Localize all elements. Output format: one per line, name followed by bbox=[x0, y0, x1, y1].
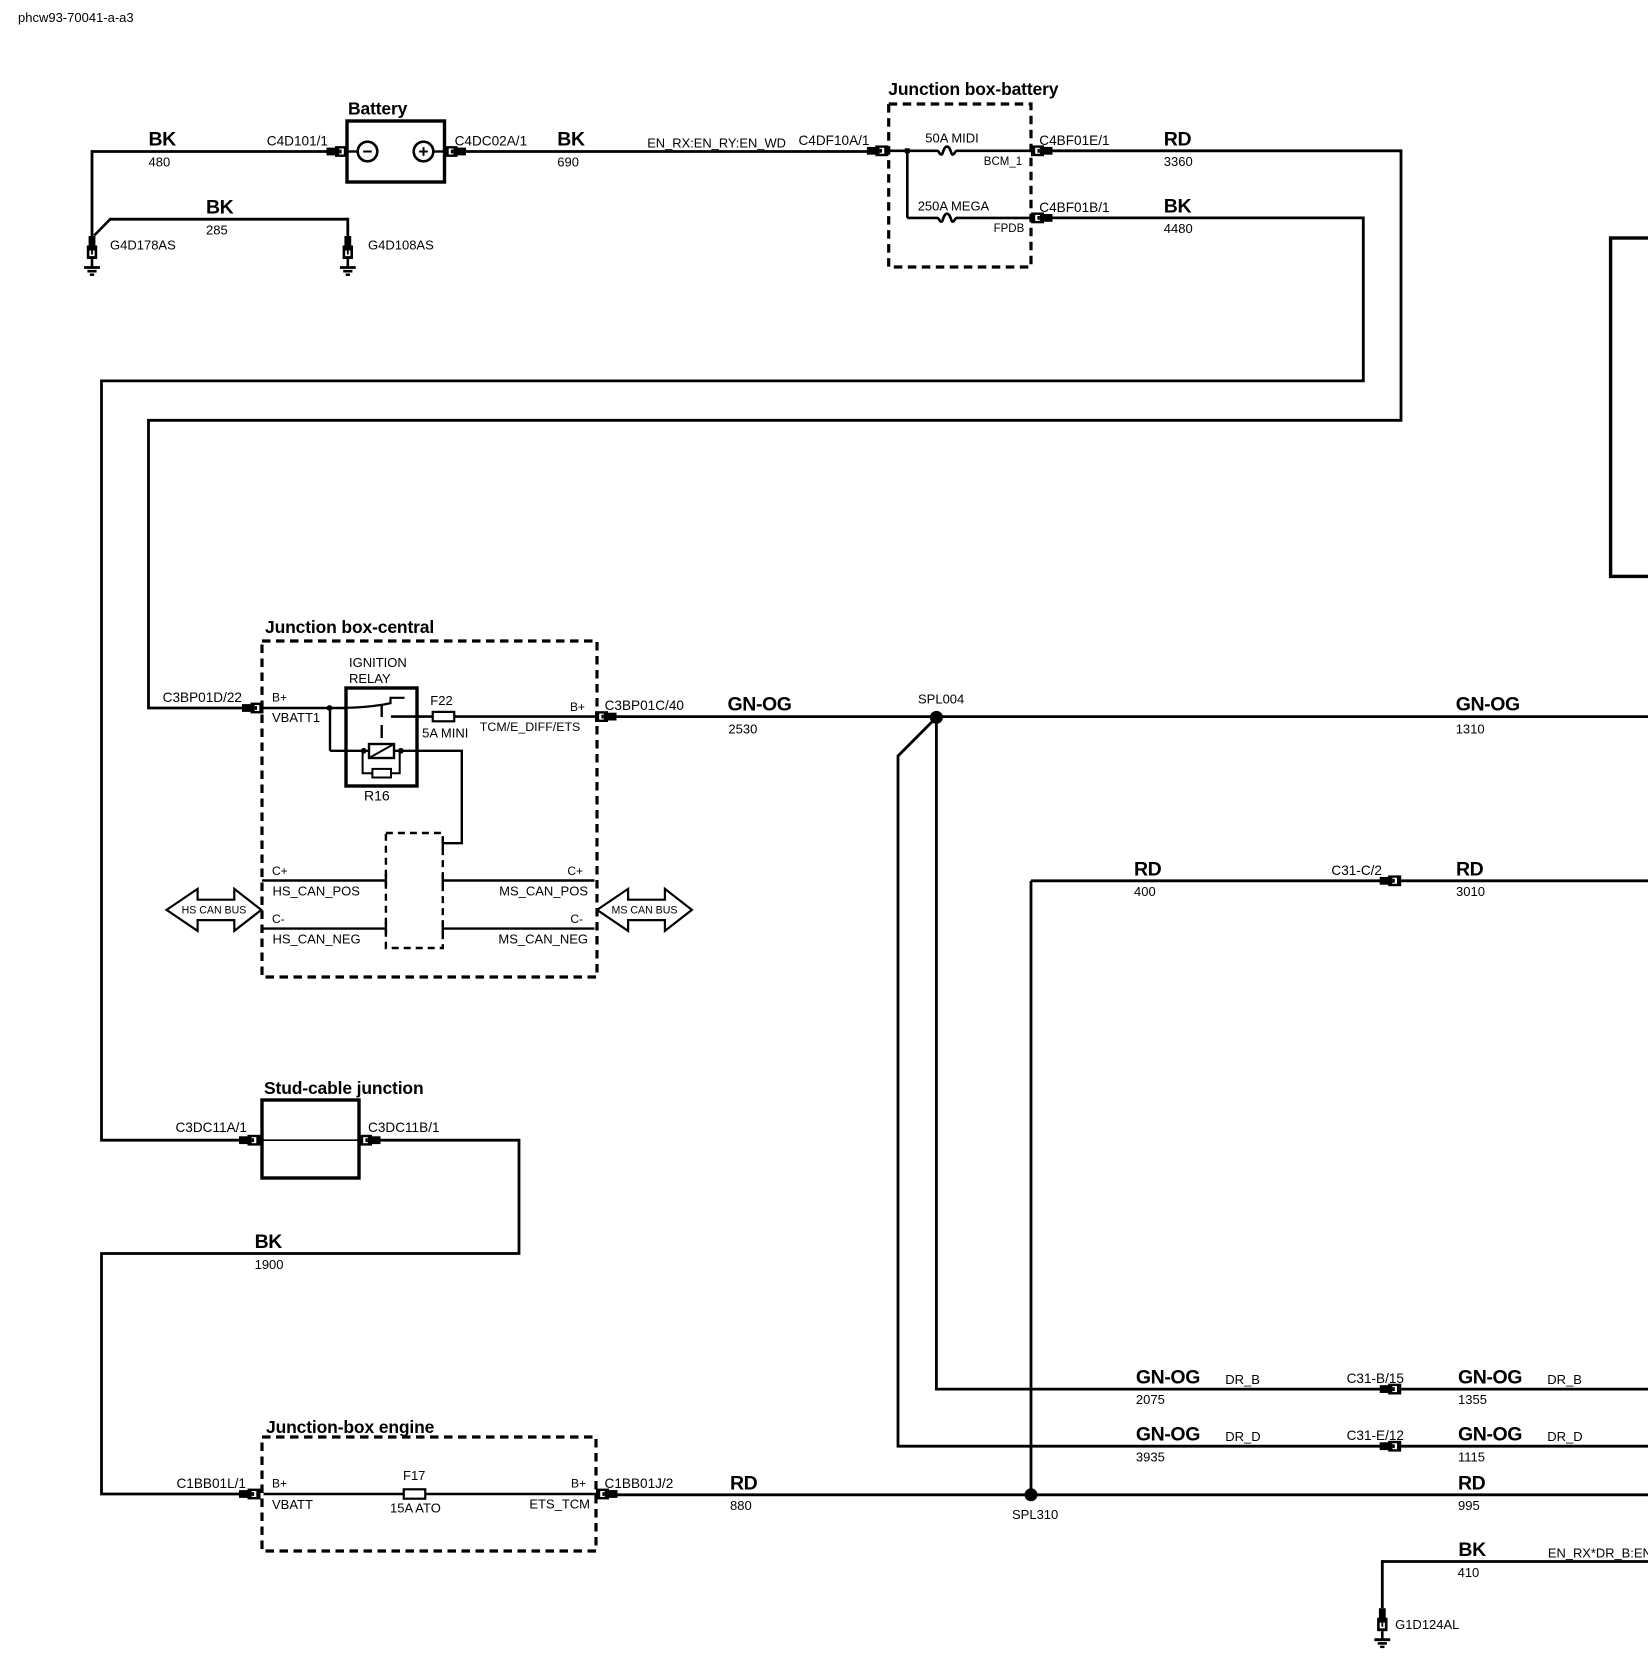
tick at CAN module box corner bbox=[442, 837, 444, 849]
junction node in junction box-battery bbox=[905, 148, 910, 153]
svg-text:EN_RX*DR_B:EN_R: EN_RX*DR_B:EN_R bbox=[1548, 1546, 1648, 1561]
svg-text:50A MIDI: 50A MIDI bbox=[925, 131, 978, 146]
HS CAN BUS arrow bbox=[167, 889, 262, 931]
wire BK 410 bbox=[1382, 1560, 1648, 1563]
svg-text:410: 410 bbox=[1458, 1565, 1480, 1580]
svg-text:FPDB: FPDB bbox=[994, 223, 1025, 235]
svg-text:HS_CAN_NEG: HS_CAN_NEG bbox=[273, 932, 361, 947]
svg-text:995: 995 bbox=[1458, 1498, 1480, 1513]
svg-text:IGNITION: IGNITION bbox=[349, 655, 407, 670]
stud-cable junction box bbox=[262, 1100, 359, 1178]
splice SPL004 bbox=[930, 711, 943, 724]
svg-text:GN-OG: GN-OG bbox=[728, 694, 792, 716]
wire GN-OG 1355 bbox=[1401, 1388, 1648, 1391]
splice SPL310 bbox=[1025, 1488, 1038, 1501]
svg-text:F22: F22 bbox=[430, 693, 452, 708]
wire through stud-cable junction bbox=[262, 1139, 359, 1141]
svg-text:Stud-cable junction: Stud-cable junction bbox=[264, 1078, 424, 1098]
partial component box (cut at sheet edge) bbox=[1611, 238, 1648, 576]
svg-text:RD: RD bbox=[1458, 1472, 1486, 1494]
svg-text:1355: 1355 bbox=[1458, 1392, 1487, 1407]
junction box-battery dashed outline bbox=[889, 104, 1031, 267]
svg-text:MS CAN BUS: MS CAN BUS bbox=[612, 905, 678, 917]
svg-text:MS_CAN_POS: MS_CAN_POS bbox=[499, 884, 588, 899]
svg-text:B+: B+ bbox=[570, 700, 585, 714]
connector C1BB01J/2 bbox=[596, 1489, 618, 1500]
CAN gateway dashed sub-box bbox=[386, 833, 443, 948]
MS CAN BUS arrow bbox=[597, 889, 692, 931]
svg-text:B+: B+ bbox=[272, 1477, 287, 1491]
wire BK 285 diagonal into ground G4D178AS bbox=[94, 219, 110, 235]
svg-text:BK: BK bbox=[1164, 195, 1192, 217]
connector C3DC11B/1 bbox=[359, 1135, 381, 1146]
relay R16 box bbox=[346, 688, 417, 786]
junction box-central dashed outline bbox=[262, 641, 597, 977]
svg-text:1310: 1310 bbox=[1456, 721, 1485, 736]
svg-text:3010: 3010 bbox=[1456, 884, 1485, 899]
wire VBATT1 into ignition relay bbox=[264, 707, 347, 710]
battery positive terminal bbox=[414, 142, 434, 162]
tick MS_CAN_POS at gateway bbox=[442, 875, 444, 887]
wire RD 400 drop to SPL310 bbox=[1030, 881, 1033, 1495]
wire BK 480 (battery negative feed) bbox=[92, 150, 328, 153]
wire BK 285 bbox=[110, 218, 348, 221]
svg-text:SPL004: SPL004 bbox=[918, 692, 964, 707]
svg-text:DR_B: DR_B bbox=[1225, 1372, 1260, 1387]
relay coil bbox=[369, 744, 394, 758]
wire 50A MIDI row out bbox=[957, 150, 1031, 153]
junction-box engine dashed outline bbox=[262, 1437, 596, 1551]
connector C3BP01D/22 bbox=[242, 703, 264, 714]
wire RD 400 bbox=[1031, 879, 1380, 882]
tick MS_CAN_NEG at gateway bbox=[442, 923, 444, 935]
wire BK 4480 to stud-cable junction bbox=[102, 218, 1364, 1140]
svg-text:ETS_TCM: ETS_TCM bbox=[529, 1497, 590, 1512]
wire relay coil left lead bbox=[330, 750, 369, 752]
wire RD 3010 bbox=[1401, 879, 1648, 882]
svg-text:15A ATO: 15A ATO bbox=[390, 1500, 441, 1515]
connector C3BP01C/40 bbox=[595, 711, 617, 722]
wire 250A MEGA row bbox=[907, 217, 937, 220]
svg-text:GN-OG: GN-OG bbox=[1458, 1366, 1522, 1388]
wire 250A MEGA row out bbox=[957, 217, 1031, 220]
svg-text:G4D108AS: G4D108AS bbox=[368, 238, 434, 253]
connector C3DC11A/1 bbox=[239, 1135, 261, 1146]
relay coil right node bbox=[398, 748, 404, 754]
svg-text:VBATT1: VBATT1 bbox=[272, 710, 320, 725]
ground G4D108AS bbox=[340, 236, 356, 275]
tick HS_CAN_NEG at gateway bbox=[385, 923, 387, 935]
wire from SPL004 to DR_D row (diagonal) bbox=[898, 717, 1380, 1446]
connector C31-B/15 bbox=[1380, 1384, 1402, 1395]
svg-text:MS_CAN_NEG: MS_CAN_NEG bbox=[498, 932, 588, 947]
battery positive stub bbox=[433, 150, 444, 152]
svg-text:G4D178AS: G4D178AS bbox=[110, 238, 176, 253]
svg-text:C3DC11A/1: C3DC11A/1 bbox=[175, 1120, 247, 1135]
svg-text:SPL310: SPL310 bbox=[1012, 1507, 1058, 1522]
wire HS_CAN_POS bbox=[262, 879, 386, 881]
svg-text:2530: 2530 bbox=[728, 721, 757, 736]
svg-text:TCM/E_DIFF/ETS: TCM/E_DIFF/ETS bbox=[480, 720, 581, 734]
svg-text:480: 480 bbox=[149, 154, 171, 169]
relay suppression resistor right lead bbox=[391, 751, 400, 773]
svg-text:GN-OG: GN-OG bbox=[1458, 1423, 1522, 1445]
svg-text:285: 285 bbox=[206, 223, 228, 238]
wire 50A MIDI row bbox=[889, 150, 937, 153]
relay coil left node bbox=[361, 748, 367, 754]
svg-text:Battery: Battery bbox=[348, 99, 408, 119]
relay armature dashed link bbox=[381, 704, 383, 744]
relay coil diagonal bbox=[369, 744, 394, 758]
svg-text:C+: C+ bbox=[567, 864, 583, 878]
svg-text:GN-OG: GN-OG bbox=[1136, 1423, 1200, 1445]
svg-text:RD: RD bbox=[1164, 128, 1192, 150]
ground G1D124AL bbox=[1374, 1608, 1390, 1647]
svg-text:C1BB01J/2: C1BB01J/2 bbox=[605, 1476, 674, 1491]
svg-text:C4DF10A/1: C4DF10A/1 bbox=[798, 133, 869, 148]
svg-text:BK: BK bbox=[149, 129, 177, 151]
wire HS_CAN_NEG bbox=[262, 927, 386, 929]
connector C4D101/1 bbox=[327, 146, 349, 157]
svg-text:GN-OG: GN-OG bbox=[1456, 694, 1520, 716]
wire RD 880 / RD 995 bbox=[618, 1493, 1648, 1496]
fuse 50A MIDI bbox=[937, 147, 957, 155]
svg-text:Junction-box engine: Junction-box engine bbox=[266, 1417, 435, 1437]
connector C4DC02A/1 bbox=[445, 146, 467, 157]
wire BK 410 drop to ground bbox=[1381, 1560, 1384, 1608]
connector C31-E/12 bbox=[1380, 1441, 1402, 1452]
svg-text:B+: B+ bbox=[272, 691, 287, 705]
battery box bbox=[347, 121, 445, 182]
svg-text:DR_D: DR_D bbox=[1547, 1429, 1582, 1444]
wire RD 3360 to junction box-central bbox=[149, 151, 1402, 708]
svg-text:1115: 1115 bbox=[1458, 1449, 1485, 1464]
svg-text:GN-OG: GN-OG bbox=[1136, 1366, 1200, 1388]
svg-text:690: 690 bbox=[557, 154, 579, 169]
battery negative terminal bbox=[358, 142, 378, 162]
svg-text:C-: C- bbox=[570, 912, 583, 926]
svg-text:G1D124AL: G1D124AL bbox=[1395, 1617, 1459, 1632]
svg-text:phcw93-70041-a-a3: phcw93-70041-a-a3 bbox=[18, 10, 134, 25]
wire relay coil right lead to TCM enable bbox=[394, 751, 462, 843]
wire branch to 250A MEGA bbox=[906, 151, 909, 218]
svg-text:RD: RD bbox=[730, 1472, 758, 1494]
svg-text:VBATT: VBATT bbox=[272, 1497, 313, 1512]
relay suppression resistor bbox=[372, 769, 391, 778]
svg-text:HS CAN BUS: HS CAN BUS bbox=[182, 905, 247, 917]
svg-text:1900: 1900 bbox=[255, 1257, 284, 1272]
wire BK 285 drop to ground G4D108AS bbox=[346, 218, 349, 236]
svg-text:3360: 3360 bbox=[1164, 154, 1193, 169]
wire MS_CAN_POS bbox=[443, 879, 595, 881]
svg-text:C4BF01B/1: C4BF01B/1 bbox=[1039, 200, 1109, 215]
svg-text:C3BP01C/40: C3BP01C/40 bbox=[605, 698, 685, 713]
wire MS_CAN_NEG bbox=[443, 927, 595, 929]
svg-text:BCM_1: BCM_1 bbox=[984, 156, 1022, 168]
connector C4BF01B/1 bbox=[1031, 213, 1053, 224]
wire through junction-box engine bbox=[264, 1493, 597, 1496]
svg-text:C-: C- bbox=[272, 912, 285, 926]
svg-text:BK: BK bbox=[255, 1231, 283, 1253]
svg-text:2075: 2075 bbox=[1136, 1392, 1165, 1407]
svg-text:C4DC02A/1: C4DC02A/1 bbox=[455, 133, 528, 148]
svg-text:DR_B: DR_B bbox=[1547, 1372, 1582, 1387]
svg-text:C+: C+ bbox=[272, 864, 288, 878]
wire from SPL004 to DR_B row bbox=[936, 717, 1380, 1389]
svg-text:C1BB01L/1: C1BB01L/1 bbox=[176, 1476, 246, 1491]
svg-text:250A MEGA: 250A MEGA bbox=[918, 198, 990, 213]
svg-text:BK: BK bbox=[1458, 1539, 1486, 1561]
svg-text:RELAY: RELAY bbox=[349, 671, 391, 686]
svg-text:B+: B+ bbox=[571, 1477, 586, 1491]
svg-text:RD: RD bbox=[1456, 858, 1484, 880]
svg-text:RD: RD bbox=[1134, 858, 1162, 880]
svg-text:400: 400 bbox=[1134, 884, 1156, 899]
connector C1BB01L/1 bbox=[239, 1489, 261, 1500]
svg-text:BK: BK bbox=[206, 197, 234, 219]
wire GN-OG 1115 bbox=[1401, 1445, 1648, 1448]
fuse 250A MEGA bbox=[937, 214, 957, 222]
svg-text:3935: 3935 bbox=[1136, 1449, 1165, 1464]
connector C4DF10A/1 bbox=[867, 145, 889, 156]
wire relay coil feed (from input node) bbox=[329, 707, 331, 751]
fuse F17 bbox=[404, 1489, 426, 1498]
battery negative stub bbox=[347, 150, 358, 152]
svg-text:C4D101/1: C4D101/1 bbox=[267, 133, 328, 148]
wire BK 480 vertical drop to ground bbox=[91, 150, 94, 236]
wire BK 1900 from stud junction bbox=[102, 1140, 520, 1494]
junction node at relay input bbox=[327, 705, 333, 711]
connector C4BF01E/1 bbox=[1031, 145, 1053, 156]
svg-text:C3BP01D/22: C3BP01D/22 bbox=[163, 690, 242, 705]
svg-text:R16: R16 bbox=[364, 788, 390, 804]
svg-text:DR_D: DR_D bbox=[1225, 1429, 1260, 1444]
wire BK 690 bbox=[466, 150, 868, 153]
svg-text:5A MINI: 5A MINI bbox=[422, 725, 468, 740]
tick HS_CAN_POS at gateway bbox=[385, 875, 387, 887]
ground G4D178AS bbox=[84, 236, 100, 275]
svg-text:C3DC11B/1: C3DC11B/1 bbox=[368, 1120, 440, 1135]
svg-text:F17: F17 bbox=[403, 1468, 425, 1483]
svg-text:BK: BK bbox=[557, 129, 585, 151]
connector C31-C/2 bbox=[1380, 875, 1402, 886]
svg-text:4480: 4480 bbox=[1164, 221, 1193, 236]
wire relay output through F22 bbox=[391, 715, 596, 718]
svg-text:880: 880 bbox=[730, 1498, 752, 1513]
svg-text:C31-C/2: C31-C/2 bbox=[1331, 863, 1382, 878]
relay suppression resistor left lead bbox=[363, 751, 373, 773]
wire GN-OG 2530 / 1310 trunk bbox=[617, 715, 1648, 718]
relay switch blade bbox=[346, 698, 405, 708]
svg-text:HS_CAN_POS: HS_CAN_POS bbox=[273, 884, 361, 899]
fuse F22 bbox=[433, 712, 455, 721]
svg-text:Junction box-central: Junction box-central bbox=[265, 617, 434, 637]
svg-text:Junction box-battery: Junction box-battery bbox=[888, 79, 1058, 99]
svg-text:EN_RX:EN_RY:EN_WD: EN_RX:EN_RY:EN_WD bbox=[647, 136, 786, 151]
svg-text:C4BF01E/1: C4BF01E/1 bbox=[1039, 133, 1109, 148]
